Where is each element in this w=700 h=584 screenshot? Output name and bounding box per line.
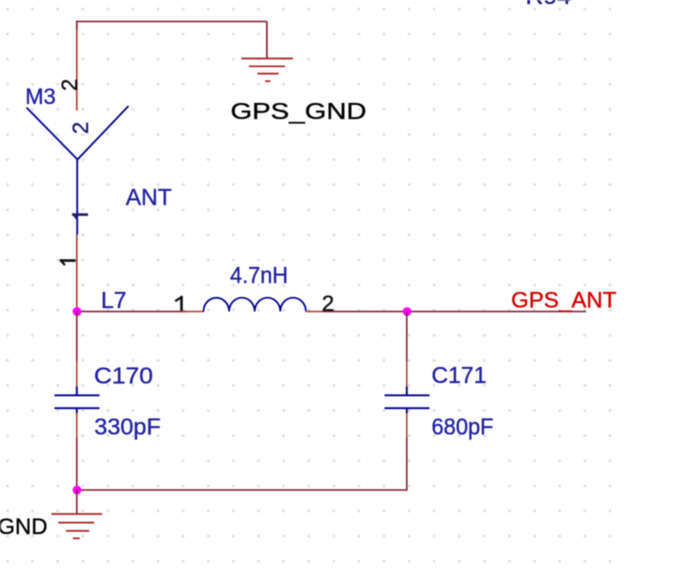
ground symbol GND	[52, 514, 103, 538]
wire: main rail left (node A to inductor)	[77, 311, 204, 313]
value label 680pF	[432, 414, 494, 440]
antenna M3 symbol body	[27, 106, 129, 235]
reference designator L7	[101, 287, 127, 313]
svg-text:2: 2	[57, 79, 82, 91]
pin number 2 (blue, symbol side)	[68, 122, 93, 134]
pin number 1 (blue, symbol side)	[72, 214, 88, 220]
svg-text:C171: C171	[432, 362, 487, 388]
node C junction dot	[73, 486, 82, 495]
reference designator C171	[432, 362, 487, 388]
wire: node A down to C170	[76, 312, 78, 388]
inductor L7 coil	[204, 298, 306, 312]
value label 4.7nH	[230, 262, 288, 288]
antenna M3 pin 1 wire segment	[76, 235, 78, 312]
antenna M3 pin 2 wire segment	[76, 29, 78, 111]
ground symbol GPS_GND	[241, 59, 293, 82]
svg-text:2: 2	[68, 122, 93, 134]
wire: C171 down to bottom rail	[406, 413, 408, 490]
node A junction dot	[73, 307, 82, 316]
svg-text:R94: R94	[526, 0, 572, 9]
pin number 1 (black, wire side)	[60, 260, 76, 266]
reference designator M3	[25, 84, 56, 109]
svg-text:GPS_ANT: GPS_ANT	[511, 288, 616, 313]
wire: node C to GND symbol	[76, 490, 78, 514]
resistor R94 reference text (cut off at top edge)	[526, 0, 572, 9]
svg-text:ANT: ANT	[126, 184, 172, 210]
wire: bottom rail from node C to C171	[77, 489, 408, 491]
pin number 2 (black, wire side)	[57, 79, 82, 91]
svg-text:M3: M3	[25, 84, 56, 109]
net name ANT	[126, 184, 172, 210]
svg-text:330pF: 330pF	[94, 414, 161, 440]
capacitor C171	[385, 387, 430, 414]
pin number 1 of L7	[175, 296, 182, 311]
wire: C170 down to node C	[76, 413, 78, 490]
wire: top rail from antenna to GPS_GND ground	[77, 21, 268, 59]
value label 330pF	[94, 414, 161, 440]
svg-text:GND: GND	[0, 514, 48, 539]
svg-text:L7: L7	[101, 287, 127, 313]
capacitor C170	[55, 387, 100, 414]
net label GPS_GND	[231, 98, 367, 124]
reference designator C170	[94, 362, 153, 388]
pin number 2 of L7	[322, 291, 335, 316]
net label GPS_ANT	[511, 288, 616, 313]
svg-text:680pF: 680pF	[432, 414, 494, 440]
svg-text:4.7nH: 4.7nH	[230, 262, 288, 288]
node B junction dot	[403, 307, 412, 316]
svg-text:GPS_GND: GPS_GND	[231, 98, 367, 124]
svg-text:C170: C170	[94, 362, 153, 388]
wire: node B down to C171	[406, 312, 408, 388]
wire: main rail right (inductor to GPS_ANT)	[306, 311, 586, 313]
net label GND	[0, 514, 48, 539]
